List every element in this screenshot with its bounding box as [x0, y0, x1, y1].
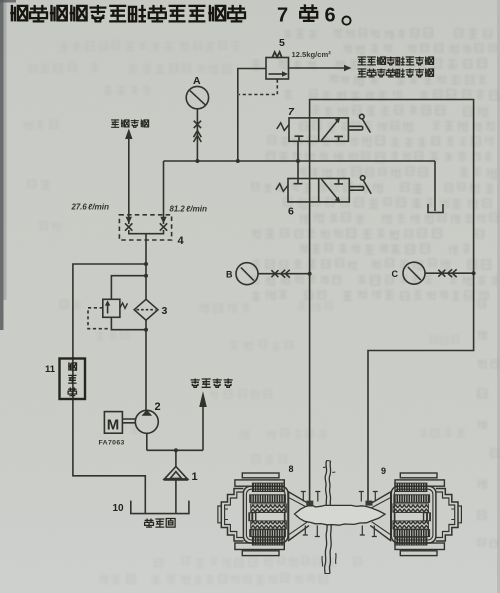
svg-text:ℓ/min: ℓ/min	[186, 205, 207, 214]
label to brake circuit	[111, 119, 149, 127]
brake unit 8	[218, 473, 309, 556]
label to torque converter	[191, 379, 233, 388]
svg-text:ℓ/min: ℓ/min	[88, 203, 109, 212]
wire bypass branch top	[111, 276, 146, 300]
test coupling X at gauge A	[194, 121, 201, 128]
test coupling X at gauge B	[271, 270, 278, 277]
wire to strainer	[175, 450, 177, 467]
relief valve 5 body	[266, 58, 289, 80]
ghost bleedthrough text	[252, 28, 499, 547]
wire to relief valve 5	[238, 69, 266, 162]
junction strainer	[174, 448, 178, 452]
axle fitting right	[366, 501, 373, 506]
junction relief line	[236, 159, 240, 163]
svg-text:9: 9	[381, 466, 386, 476]
title text	[10, 4, 350, 26]
junction B line	[308, 272, 312, 276]
svg-text:8: 8	[289, 464, 294, 474]
wire loop to left brake	[310, 100, 474, 501]
gauge A	[186, 86, 208, 108]
drive shaft bottom	[325, 525, 328, 574]
axle bolt pins left bottom	[303, 526, 320, 537]
valve 11 box	[60, 359, 86, 400]
valve 7 spring	[277, 123, 289, 131]
junction valve port	[296, 159, 300, 163]
drive shaft top	[325, 461, 327, 506]
motor M	[104, 412, 122, 434]
filter 3	[134, 299, 158, 320]
strainer 1	[164, 467, 189, 480]
relief valve 5 spring	[273, 52, 282, 57]
valve 7 body	[289, 117, 348, 141]
svg-text:B: B	[226, 270, 233, 280]
wire to torque converter with arrow	[199, 391, 207, 450]
flow divider restrictor right	[160, 217, 167, 231]
junction at gauge A	[195, 159, 199, 163]
pilot dashed line of valve 5	[239, 80, 277, 95]
label steering tank	[145, 519, 176, 528]
tank 10	[131, 501, 189, 514]
wire to brake circuit with arrow	[125, 129, 132, 225]
wire divider to main line	[163, 161, 165, 224]
svg-text:6: 6	[288, 206, 294, 218]
wire return line via valve 11	[73, 264, 146, 514]
test coupling X at gauge C	[438, 270, 445, 277]
valve 6 roller lever actuator	[349, 176, 371, 194]
left edge shadow	[0, 0, 4, 330]
wire valve7 to valve6 port	[297, 141, 299, 178]
junction bypass top	[144, 274, 148, 278]
wire gauge B line	[258, 273, 310, 275]
wire gauge A stem	[196, 109, 198, 161]
valve 6 body	[288, 179, 349, 203]
coupling motor-pump	[122, 419, 135, 423]
svg-text:2: 2	[155, 401, 161, 413]
gauge C	[403, 262, 425, 284]
svg-text:M: M	[107, 417, 120, 434]
label 81.2 l/min	[170, 205, 208, 214]
check chevrons at gauge A	[194, 131, 202, 142]
wire bypass branch bottom	[111, 317, 146, 329]
axle bolt pins right top	[359, 492, 378, 502]
valve 6 spring	[276, 184, 288, 192]
flow divider restrictor left	[125, 217, 132, 231]
svg-text:11: 11	[45, 364, 56, 375]
gauge B	[236, 263, 258, 285]
wire strainer to tank	[175, 480, 177, 514]
bypass valve spring	[120, 303, 128, 308]
svg-text:3: 3	[162, 305, 168, 317]
wire main supply horizontal	[164, 160, 436, 162]
label 27.6 l/min	[71, 203, 110, 212]
junction return branch	[144, 262, 148, 266]
tank symbol drain	[428, 204, 443, 213]
label to torque converter circuit	[358, 69, 434, 77]
svg-text:1: 1	[192, 471, 198, 483]
svg-text:7: 7	[277, 5, 288, 27]
wire pump suction	[147, 433, 203, 450]
junction bypass bottom	[144, 328, 148, 332]
flow divider 4 dashed box	[119, 215, 171, 240]
junction C line	[472, 271, 476, 275]
brake unit 9	[370, 473, 461, 556]
axle bolt pins right bottom	[360, 526, 377, 537]
svg-text:12.5kg/cm²: 12.5kg/cm²	[292, 50, 332, 59]
axle center housing	[295, 505, 386, 525]
wire divider to pump via filter	[145, 240, 147, 410]
right edge tint	[497, 0, 500, 593]
pump 2	[135, 410, 158, 434]
chevrons at gauge C	[448, 269, 457, 277]
svg-text:27.6: 27.6	[71, 203, 88, 212]
chevrons at gauge B	[281, 270, 290, 278]
wire gauge C line	[425, 272, 474, 274]
pilot dashed of bypass valve	[88, 308, 110, 329]
axle fitting left	[306, 501, 313, 506]
svg-text:C: C	[392, 269, 399, 279]
svg-text:4: 4	[178, 235, 185, 247]
svg-text:FA7063: FA7063	[99, 440, 125, 447]
wire relief valve outlet arrow	[289, 65, 352, 72]
axle bolt pins left top	[301, 492, 321, 502]
bypass check valve of filter	[103, 299, 120, 317]
valve 7 roller lever actuator	[348, 114, 370, 132]
wire drain to tank symbol	[434, 161, 436, 211]
svg-text:10: 10	[113, 503, 125, 514]
svg-text:81.2: 81.2	[170, 205, 186, 214]
label to transmission lube circuit	[358, 57, 434, 65]
svg-text:5: 5	[279, 37, 285, 49]
svg-text:6: 6	[325, 5, 336, 27]
svg-text:A: A	[193, 75, 201, 87]
flow divider internal connection	[129, 230, 164, 240]
